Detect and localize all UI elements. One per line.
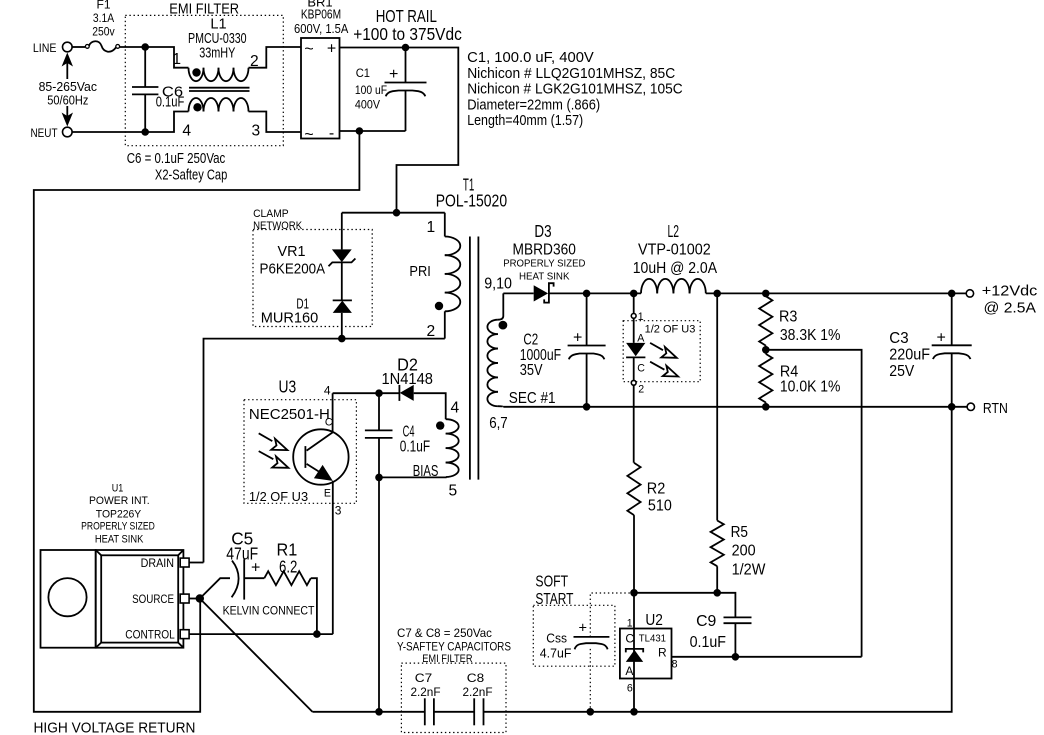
wire SOURCE pin xyxy=(189,598,200,600)
svg-text:~: ~ xyxy=(304,127,313,144)
junction U2 anode ground xyxy=(630,708,638,716)
junction R5 bottom xyxy=(713,589,721,597)
svg-text:4.7uF: 4.7uF xyxy=(540,646,572,661)
capacitor C1 xyxy=(355,48,427,132)
wire R2/R5 bottom node xyxy=(634,593,735,618)
wire divider sense line to TL431 ref xyxy=(766,350,862,657)
junction R2 bottom xyxy=(630,589,638,597)
svg-text:8: 8 xyxy=(672,659,678,671)
svg-text:POWER INT.: POWER INT. xyxy=(89,495,150,507)
inductor L2 VTP-01002 xyxy=(633,221,718,293)
wire BR1 plus to hot rail and down to T1 xyxy=(340,48,459,213)
svg-text:KELVIN CONNECT: KELVIN CONNECT xyxy=(223,604,315,618)
optocoupler U3 LED half dotted box xyxy=(623,321,700,382)
svg-text:9,10: 9,10 xyxy=(484,276,512,293)
svg-text:10.0K 1%: 10.0K 1% xyxy=(780,379,841,396)
junction SOURCE node xyxy=(196,594,204,602)
svg-text:+: + xyxy=(251,560,260,577)
svg-text:250v: 250v xyxy=(92,25,114,39)
svg-text:Css: Css xyxy=(546,630,567,645)
svg-text:C: C xyxy=(325,417,333,429)
junction BR1 minus / HV return xyxy=(356,127,364,135)
svg-text:3: 3 xyxy=(335,504,342,518)
svg-text:C6 = 0.1uF 250Vac: C6 = 0.1uF 250Vac xyxy=(127,151,226,167)
svg-text:6,7: 6,7 xyxy=(489,415,508,432)
wire bias return down to bottom rail xyxy=(378,477,380,711)
svg-text:1N4148: 1N4148 xyxy=(381,371,433,388)
svg-text:+: + xyxy=(937,330,946,347)
capacitor C9 0.1uF xyxy=(690,613,752,657)
junction C2 bottom xyxy=(583,403,591,411)
node NEUT terminal xyxy=(31,126,73,140)
svg-text:100 uF: 100 uF xyxy=(355,83,387,97)
svg-text:@ 2.5A: @ 2.5A xyxy=(984,301,1037,317)
wire choke pin2 to BR1 xyxy=(249,47,302,68)
input voltage range arrow 85-265Vac 50/60Hz xyxy=(39,53,98,127)
capacitor C4 0.1uF xyxy=(365,393,430,477)
wire BR1 minus rail xyxy=(340,130,406,132)
svg-text:1/2 OF U3: 1/2 OF U3 xyxy=(645,324,696,336)
junction R5 tap xyxy=(713,290,721,298)
IC U2 TL431 xyxy=(620,612,678,695)
wire T1 pin2 to U1 drain riser xyxy=(204,339,445,563)
svg-text:F1: F1 xyxy=(96,0,110,12)
wire D2 cathode to bias winding pin4 xyxy=(414,393,446,419)
svg-text:1: 1 xyxy=(638,311,644,323)
svg-text:0.1uF: 0.1uF xyxy=(400,439,430,456)
resistor R1 6.2 xyxy=(244,540,317,635)
wire source diagonal to secondary ground rail xyxy=(200,599,313,712)
svg-text:2: 2 xyxy=(427,323,436,340)
svg-text:220uF: 220uF xyxy=(889,347,930,364)
wire DRAIN pin xyxy=(189,562,203,564)
svg-text:4: 4 xyxy=(182,123,191,140)
svg-text:C1: C1 xyxy=(356,66,371,80)
wire TL431 ref line xyxy=(672,656,862,658)
svg-text:Y-SAFTEY CAPACITORS: Y-SAFTEY CAPACITORS xyxy=(397,640,511,654)
junction C6 bottom xyxy=(141,128,149,136)
clamp network dotted box xyxy=(253,208,372,327)
transformer T1 bias winding xyxy=(379,400,460,500)
svg-text:HEAT SINK: HEAT SINK xyxy=(519,272,570,283)
svg-text:3.1A: 3.1A xyxy=(93,11,114,25)
capacitor C6 xyxy=(132,47,184,132)
transformer T1 primary winding xyxy=(409,213,460,340)
svg-text:RTN: RTN xyxy=(983,401,1008,417)
capacitor C2 1000uF xyxy=(520,293,606,406)
svg-text:38.3K 1%: 38.3K 1% xyxy=(780,327,841,344)
wire sec top to D3 xyxy=(503,292,533,294)
transformer T1 secondary winding SEC #1 xyxy=(484,276,555,433)
svg-text:+: + xyxy=(573,330,582,347)
svg-text:Nichicon # LLQ2G101MHSZ, 85C: Nichicon # LLQ2G101MHSZ, 85C xyxy=(467,66,675,82)
svg-text:35V: 35V xyxy=(520,362,543,379)
junction opto LED anode xyxy=(630,290,638,298)
tvs diode VR1 P6KE200A xyxy=(260,213,356,301)
svg-text:50/60Hz: 50/60Hz xyxy=(47,93,88,108)
svg-text:C7: C7 xyxy=(415,671,433,685)
svg-text:HIGH VOLTAGE RETURN: HIGH VOLTAGE RETURN xyxy=(34,721,196,735)
svg-text:L2: L2 xyxy=(668,221,680,241)
capacitor C5 47uF xyxy=(200,529,261,600)
svg-text:0.1uF: 0.1uF xyxy=(690,634,727,651)
svg-text:SOFT: SOFT xyxy=(535,574,568,591)
label SOFT START xyxy=(535,574,573,609)
svg-text:EMI FILTER: EMI FILTER xyxy=(169,2,239,18)
svg-text:+: + xyxy=(579,621,588,637)
svg-text:1/2 OF U3: 1/2 OF U3 xyxy=(249,489,308,504)
note C6 X2 safety cap xyxy=(127,151,228,184)
svg-text:NETWORK: NETWORK xyxy=(253,220,302,232)
diode D2 1N4148 xyxy=(381,355,433,401)
svg-text:Length=40mm (1.57): Length=40mm (1.57) xyxy=(467,113,583,129)
junction C6 top xyxy=(141,43,149,51)
resistor R5 200 1/2W xyxy=(711,293,767,592)
common-mode choke L1 xyxy=(172,17,260,140)
wire D3 cathode rail xyxy=(549,292,641,294)
soft start dotted box xyxy=(533,605,615,666)
optocoupler U3 LED xyxy=(626,293,695,395)
svg-text:2.2nF: 2.2nF xyxy=(462,685,492,699)
junction R3/R4 divider xyxy=(762,346,770,354)
svg-text:P6KE200A: P6KE200A xyxy=(260,262,326,278)
wire high voltage return loop xyxy=(34,131,360,712)
svg-text:-: - xyxy=(329,125,334,142)
svg-text:+: + xyxy=(389,66,398,83)
svg-text:510: 510 xyxy=(648,498,672,515)
svg-text:6: 6 xyxy=(627,683,633,695)
junction clamp bottom on pin2 wire xyxy=(338,335,346,343)
junction C3 bottom / RTN node xyxy=(948,403,956,411)
svg-text:CONTROL: CONTROL xyxy=(125,628,175,642)
junction T1 top xyxy=(393,209,401,217)
IC U1 heat sink tab xyxy=(41,550,96,648)
svg-text:HEAT SINK: HEAT SINK xyxy=(95,534,144,546)
svg-text:1: 1 xyxy=(172,51,181,68)
svg-text:X2-Saftey Cap: X2-Saftey Cap xyxy=(155,168,227,184)
svg-text:BIAS: BIAS xyxy=(413,463,439,480)
capacitor C7 2.2nF xyxy=(410,671,440,725)
svg-text:1/2W: 1/2W xyxy=(732,562,767,579)
svg-text:SOURCE: SOURCE xyxy=(132,592,174,606)
junction R4 bottom on RTN xyxy=(762,403,770,411)
svg-text:POL-15020: POL-15020 xyxy=(436,191,508,211)
wire CONTROL pin xyxy=(189,633,333,635)
capacitor C8 2.2nF xyxy=(462,671,492,725)
fuse F1 xyxy=(72,0,120,52)
svg-text:MUR160: MUR160 xyxy=(261,310,319,326)
svg-text:Nichicon # LGK2G101MHSZ, 105C: Nichicon # LGK2G101MHSZ, 105C xyxy=(467,82,683,98)
svg-text:NEUT: NEUT xyxy=(31,126,59,140)
diode D3 MBRD360 xyxy=(503,221,585,303)
svg-text:2.2nF: 2.2nF xyxy=(410,685,440,699)
capacitor Css 4.7uF xyxy=(540,621,610,661)
wire choke pin3 to BR1 xyxy=(249,112,302,133)
svg-text:~: ~ xyxy=(304,41,313,58)
pin SOURCE xyxy=(180,594,189,603)
note C1 Nichicon annotation xyxy=(467,50,683,129)
svg-text:600V, 1.5A: 600V, 1.5A xyxy=(294,21,349,36)
svg-text:2: 2 xyxy=(638,384,644,396)
node RTN terminal xyxy=(952,401,1008,417)
svg-text:C: C xyxy=(637,363,645,375)
bridge rectifier BR1 KBP06M xyxy=(294,0,349,144)
svg-text:LINE: LINE xyxy=(33,41,57,55)
svg-text:PROPERLY SIZED: PROPERLY SIZED xyxy=(503,259,585,270)
IC U1 package xyxy=(96,550,184,648)
svg-text:+12Vdc: +12Vdc xyxy=(982,284,1037,300)
svg-text:10uH @ 2.0A: 10uH @ 2.0A xyxy=(633,260,718,277)
svg-text:R2: R2 xyxy=(647,481,666,498)
svg-text:MBRD360: MBRD360 xyxy=(513,242,576,259)
svg-text:PROPERLY SIZED: PROPERLY SIZED xyxy=(81,521,155,533)
capacitor C3 220uF xyxy=(889,293,971,406)
svg-text:TOP226Y: TOP226Y xyxy=(96,509,141,521)
svg-text:D3: D3 xyxy=(534,221,551,241)
svg-text:R3: R3 xyxy=(779,309,797,326)
svg-text:U2: U2 xyxy=(645,612,663,629)
svg-text:KBP06M: KBP06M xyxy=(301,7,341,22)
svg-text:U3: U3 xyxy=(279,377,297,397)
node LINE terminal xyxy=(33,41,72,55)
wire RTN rail xyxy=(503,406,951,408)
svg-text:VTP-01002: VTP-01002 xyxy=(638,242,711,259)
transformer T1 core xyxy=(469,237,471,480)
svg-text:U1: U1 xyxy=(112,483,124,495)
note Y-safety capacitors xyxy=(397,626,511,654)
transformer T1 POL-15020 label xyxy=(436,175,508,211)
svg-text:R5: R5 xyxy=(731,524,748,541)
svg-text:E: E xyxy=(324,488,331,500)
IC U1 TOP226Y labels xyxy=(81,483,155,546)
wire Css dotted to R2 node xyxy=(590,593,634,637)
svg-text:33mHY: 33mHY xyxy=(199,46,235,62)
junction C2 top xyxy=(583,290,591,298)
svg-text:25V: 25V xyxy=(889,363,914,380)
svg-text:200: 200 xyxy=(732,543,756,560)
svg-text:C2: C2 xyxy=(523,332,538,349)
optocoupler U3 transistor half dotted box xyxy=(244,377,356,505)
optocoupler U3 transistor xyxy=(259,384,349,635)
wire Css dotted to ground rail xyxy=(589,649,591,712)
svg-text:3: 3 xyxy=(252,123,261,140)
junction bias riser on bottom rail xyxy=(375,708,383,716)
svg-text:C9: C9 xyxy=(696,613,716,630)
svg-text:6.2: 6.2 xyxy=(279,557,297,577)
wire L2 to +12V terminal xyxy=(706,292,966,294)
svg-text:TL431: TL431 xyxy=(639,634,666,645)
resistor R3 38.3K xyxy=(759,293,840,349)
wire through U2 cathode-anode xyxy=(633,593,635,712)
svg-text:PRI: PRI xyxy=(409,264,430,280)
svg-text:SEC #1: SEC #1 xyxy=(509,390,556,407)
svg-text:DRAIN: DRAIN xyxy=(141,556,174,570)
resistor R4 10.0K xyxy=(759,350,840,407)
svg-text:4: 4 xyxy=(451,400,460,417)
svg-text:A: A xyxy=(625,664,633,678)
pin CONTROL xyxy=(180,630,189,639)
svg-text:+: + xyxy=(327,41,336,58)
wire T1 top node xyxy=(342,212,445,214)
svg-text:400V: 400V xyxy=(355,98,380,112)
svg-text:R: R xyxy=(658,646,667,660)
diode D1 MUR160 xyxy=(261,297,352,339)
label HOT RAIL xyxy=(353,6,462,44)
svg-text:Diameter=22mm (.866): Diameter=22mm (.866) xyxy=(467,97,600,113)
wire NEUT to choke pin4 xyxy=(72,112,188,133)
svg-text:1: 1 xyxy=(427,219,436,236)
svg-text:C3: C3 xyxy=(889,330,908,347)
junction Css ground xyxy=(587,708,595,716)
junction R1 to CONTROL xyxy=(313,630,321,638)
wire bottom rail mid segment xyxy=(434,711,474,713)
svg-text:C7 & C8 = 250Vac: C7 & C8 = 250Vac xyxy=(397,626,492,640)
wire LINE to choke pin1 xyxy=(120,47,189,68)
EMI filter Y-cap dotted box xyxy=(401,653,506,733)
junction C3 top xyxy=(948,290,956,298)
resistor R2 510 xyxy=(627,463,671,593)
svg-text:C: C xyxy=(625,632,634,646)
wire bottom rail right segment xyxy=(484,407,952,712)
junction C4 top / D2 anode xyxy=(375,389,383,397)
svg-text:+100 to 375Vdc: +100 to 375Vdc xyxy=(353,24,462,44)
wire bottom rail left segment xyxy=(312,711,424,713)
node +12Vdc terminal xyxy=(966,284,1037,317)
junction hot rail / C1 xyxy=(402,44,410,52)
svg-text:4: 4 xyxy=(324,384,331,398)
svg-text:CLAMP: CLAMP xyxy=(253,208,289,220)
junction R3 top xyxy=(762,290,770,298)
EMI FILTER dotted box xyxy=(125,2,283,146)
svg-text:0.1uF: 0.1uF xyxy=(156,95,185,111)
junction C9 bottom on ref line xyxy=(732,653,740,661)
wire opto collector node to D2 xyxy=(333,392,400,394)
svg-text:C1, 100.0 uF, 400V: C1, 100.0 uF, 400V xyxy=(467,50,594,66)
pin DRAIN xyxy=(180,558,189,567)
junction bias return / C4 bottom xyxy=(375,474,383,482)
svg-text:EMI FILTER: EMI FILTER xyxy=(422,653,473,665)
svg-text:5: 5 xyxy=(449,483,458,500)
wire opto LED cathode down to R2 xyxy=(633,385,635,463)
svg-text:A: A xyxy=(637,333,645,345)
svg-text:HOT RAIL: HOT RAIL xyxy=(376,6,437,26)
svg-text:VR1: VR1 xyxy=(278,244,306,260)
svg-text:C8: C8 xyxy=(467,671,485,685)
svg-text:NEC2501-H: NEC2501-H xyxy=(249,407,330,423)
svg-text:1: 1 xyxy=(627,618,633,630)
